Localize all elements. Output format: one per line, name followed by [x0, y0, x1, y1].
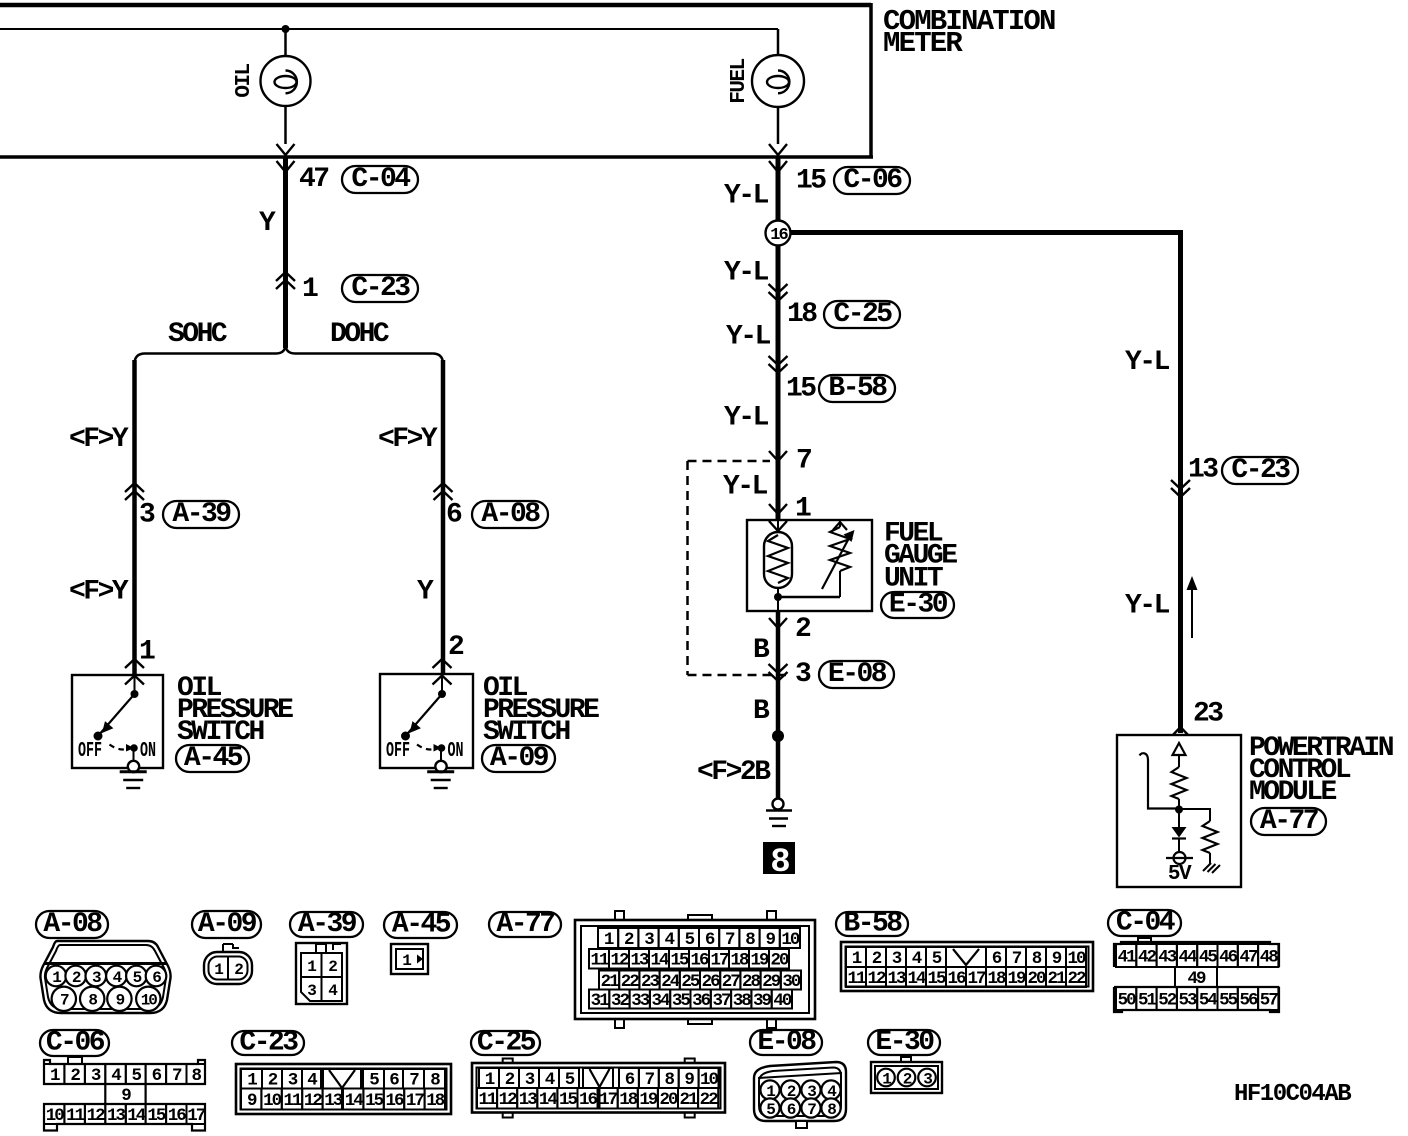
svg-text:44: 44	[1179, 947, 1198, 967]
svg-text:1: 1	[604, 930, 614, 950]
svg-text:E-30: E-30	[889, 590, 948, 621]
svg-text:5: 5	[565, 1070, 575, 1090]
svg-text:15: 15	[559, 1090, 578, 1110]
svg-text:HF10C04AB: HF10C04AB	[1234, 1081, 1351, 1108]
svg-text:7: 7	[725, 930, 735, 950]
svg-text:38: 38	[733, 991, 752, 1011]
svg-text:6: 6	[152, 1066, 162, 1086]
svg-text:3: 3	[644, 930, 654, 950]
svg-text:21: 21	[680, 1090, 699, 1110]
svg-text:3: 3	[892, 949, 902, 969]
svg-text:A-77: A-77	[1260, 806, 1318, 837]
svg-text:<F>2B: <F>2B	[697, 757, 771, 788]
svg-text:8: 8	[1032, 949, 1042, 969]
svg-text:2: 2	[624, 930, 634, 950]
svg-text:Y-L: Y-L	[726, 322, 771, 353]
svg-text:14: 14	[345, 1091, 364, 1111]
svg-text:3: 3	[139, 500, 155, 531]
svg-text:<F>Y: <F>Y	[69, 424, 129, 455]
svg-text:13: 13	[1188, 455, 1218, 486]
svg-text:A-77: A-77	[496, 909, 554, 940]
svg-text:7: 7	[796, 446, 811, 477]
svg-text:12: 12	[87, 1106, 106, 1126]
svg-text:5: 5	[685, 930, 695, 950]
svg-text:7: 7	[172, 1066, 182, 1086]
svg-text:<F>Y: <F>Y	[378, 424, 438, 455]
svg-text:4: 4	[545, 1070, 555, 1090]
svg-text:17: 17	[710, 951, 729, 971]
svg-text:C-25: C-25	[477, 1028, 536, 1059]
svg-text:23: 23	[1193, 699, 1223, 730]
svg-text:17: 17	[187, 1106, 206, 1126]
svg-text:4: 4	[111, 1066, 121, 1086]
svg-text:46: 46	[1219, 947, 1238, 967]
svg-text:18: 18	[787, 299, 817, 330]
svg-text:1: 1	[50, 1066, 60, 1086]
svg-text:55: 55	[1219, 990, 1238, 1010]
svg-text:<F>Y: <F>Y	[69, 577, 129, 608]
svg-text:A-08: A-08	[43, 909, 102, 940]
svg-text:9: 9	[247, 1091, 257, 1111]
svg-text:8: 8	[664, 1070, 674, 1090]
svg-text:14: 14	[907, 969, 926, 989]
svg-text:31: 31	[591, 991, 610, 1011]
svg-text:12: 12	[610, 951, 629, 971]
svg-text:B-58: B-58	[828, 373, 887, 404]
svg-text:11: 11	[66, 1106, 85, 1126]
svg-text:16: 16	[168, 1106, 187, 1126]
svg-text:20: 20	[770, 951, 789, 971]
svg-text:C-23: C-23	[351, 273, 410, 304]
svg-text:11: 11	[847, 969, 866, 989]
svg-text:A-39: A-39	[298, 909, 357, 940]
svg-text:54: 54	[1199, 990, 1218, 1010]
svg-text:Y-L: Y-L	[1125, 591, 1170, 622]
svg-text:13: 13	[519, 1090, 538, 1110]
svg-text:E-08: E-08	[828, 659, 887, 690]
svg-text:34: 34	[652, 991, 671, 1011]
svg-text:3: 3	[525, 1070, 535, 1090]
svg-text:B-58: B-58	[843, 909, 902, 940]
svg-text:33: 33	[631, 991, 650, 1011]
svg-text:4: 4	[912, 949, 922, 969]
svg-text:45: 45	[1199, 947, 1218, 967]
svg-text:4: 4	[664, 930, 674, 950]
svg-text:10: 10	[781, 930, 800, 950]
svg-text:16: 16	[947, 969, 966, 989]
svg-text:15: 15	[786, 374, 816, 405]
svg-text:METER: METER	[883, 27, 963, 60]
svg-text:5: 5	[932, 949, 942, 969]
svg-text:16: 16	[385, 1091, 404, 1111]
svg-text:20: 20	[1027, 969, 1046, 989]
svg-text:8: 8	[770, 844, 789, 882]
svg-text:37: 37	[712, 991, 731, 1011]
svg-text:1: 1	[302, 274, 318, 305]
svg-text:47: 47	[1239, 947, 1258, 967]
svg-text:2: 2	[505, 1070, 515, 1090]
svg-text:14: 14	[650, 951, 669, 971]
svg-text:A-39: A-39	[172, 499, 231, 530]
svg-text:10: 10	[700, 1070, 719, 1090]
svg-text:A-08: A-08	[481, 499, 540, 530]
svg-text:11: 11	[283, 1091, 302, 1111]
svg-text:21: 21	[1047, 969, 1066, 989]
svg-text:18: 18	[987, 969, 1006, 989]
svg-text:22: 22	[700, 1090, 719, 1110]
svg-text:13: 13	[630, 951, 649, 971]
svg-text:14: 14	[539, 1090, 558, 1110]
svg-text:10: 10	[1067, 949, 1086, 969]
svg-text:C-04: C-04	[351, 164, 410, 195]
svg-text:22: 22	[1067, 969, 1086, 989]
svg-text:18: 18	[730, 951, 749, 971]
svg-text:5: 5	[131, 1066, 141, 1086]
svg-text:A-45: A-45	[392, 910, 451, 941]
svg-text:57: 57	[1260, 990, 1279, 1010]
svg-text:12: 12	[304, 1091, 323, 1111]
svg-text:9: 9	[684, 1070, 694, 1090]
svg-text:OFF: OFF	[78, 740, 102, 763]
svg-text:43: 43	[1158, 947, 1177, 967]
svg-text:11: 11	[590, 951, 609, 971]
svg-text:C-23: C-23	[1231, 455, 1290, 486]
svg-text:6: 6	[446, 500, 462, 531]
svg-text:15: 15	[147, 1106, 166, 1126]
svg-text:47: 47	[299, 164, 328, 195]
svg-text:Y-L: Y-L	[723, 472, 768, 503]
svg-text:6: 6	[992, 949, 1002, 969]
svg-text:1: 1	[485, 1070, 495, 1090]
svg-text:56: 56	[1239, 990, 1258, 1010]
svg-text:C-06: C-06	[46, 1028, 105, 1059]
svg-text:A-09: A-09	[198, 909, 257, 940]
svg-text:2: 2	[795, 614, 811, 645]
svg-text:A-45: A-45	[184, 743, 243, 774]
svg-text:41: 41	[1118, 947, 1137, 967]
svg-text:9: 9	[121, 1086, 131, 1106]
svg-text:14: 14	[127, 1106, 146, 1126]
svg-text:20: 20	[659, 1090, 678, 1110]
svg-text:18: 18	[426, 1091, 445, 1111]
svg-text:12: 12	[499, 1090, 518, 1110]
svg-text:OFF: OFF	[386, 740, 410, 763]
svg-text:2: 2	[448, 632, 464, 663]
svg-text:SOHC: SOHC	[168, 319, 228, 350]
svg-text:17: 17	[599, 1090, 618, 1110]
svg-text:C-25: C-25	[833, 299, 892, 330]
svg-text:3: 3	[91, 1066, 101, 1086]
svg-text:DOHC: DOHC	[330, 319, 390, 350]
svg-text:15: 15	[927, 969, 946, 989]
svg-text:15: 15	[365, 1091, 384, 1111]
svg-text:2: 2	[872, 949, 882, 969]
svg-text:15: 15	[796, 166, 826, 197]
svg-text:8: 8	[745, 930, 755, 950]
svg-text:ON: ON	[140, 740, 156, 763]
svg-text:Y-L: Y-L	[724, 181, 769, 212]
svg-text:18: 18	[619, 1090, 638, 1110]
svg-text:3: 3	[795, 659, 811, 690]
svg-text:10: 10	[141, 992, 158, 1010]
svg-text:13: 13	[887, 969, 906, 989]
svg-text:17: 17	[406, 1091, 425, 1111]
svg-text:49: 49	[1187, 969, 1206, 989]
svg-text:16: 16	[579, 1090, 598, 1110]
svg-text:A-09: A-09	[490, 743, 549, 774]
svg-text:17: 17	[967, 969, 986, 989]
svg-text:11: 11	[479, 1090, 498, 1110]
svg-text:19: 19	[639, 1090, 658, 1110]
svg-text:32: 32	[611, 991, 630, 1011]
svg-text:FUEL: FUEL	[728, 58, 751, 103]
svg-text:9: 9	[765, 930, 775, 950]
svg-text:13: 13	[107, 1106, 126, 1126]
svg-text:MODULE: MODULE	[1249, 777, 1337, 808]
svg-text:15: 15	[670, 951, 689, 971]
svg-text:Y-L: Y-L	[724, 258, 769, 289]
svg-text:1: 1	[139, 637, 155, 668]
svg-text:9: 9	[1052, 949, 1062, 969]
svg-text:19: 19	[1007, 969, 1026, 989]
svg-text:7: 7	[1012, 949, 1022, 969]
svg-text:40: 40	[773, 991, 792, 1011]
svg-text:ON: ON	[448, 740, 464, 763]
svg-text:12: 12	[867, 969, 886, 989]
svg-text:50: 50	[1118, 990, 1137, 1010]
svg-text:48: 48	[1260, 947, 1279, 967]
svg-text:C-04: C-04	[1116, 908, 1175, 939]
svg-text:C-06: C-06	[843, 165, 902, 196]
svg-text:7: 7	[645, 1070, 655, 1090]
svg-text:10: 10	[46, 1106, 65, 1126]
svg-text:OIL: OIL	[233, 63, 256, 97]
svg-text:2: 2	[70, 1066, 80, 1086]
svg-text:53: 53	[1179, 990, 1198, 1010]
svg-text:5V: 5V	[1168, 863, 1192, 886]
svg-text:8: 8	[191, 1066, 201, 1086]
svg-text:36: 36	[692, 991, 711, 1011]
svg-text:Y-L: Y-L	[724, 403, 769, 434]
svg-text:E-30: E-30	[875, 1027, 934, 1058]
svg-text:51: 51	[1138, 990, 1157, 1010]
svg-text:1: 1	[852, 949, 862, 969]
svg-text:35: 35	[672, 991, 691, 1011]
svg-text:13: 13	[324, 1091, 343, 1111]
svg-text:6: 6	[625, 1070, 635, 1090]
svg-text:16: 16	[690, 951, 709, 971]
svg-text:16: 16	[770, 226, 788, 245]
svg-text:E-08: E-08	[757, 1027, 816, 1058]
svg-text:C-23: C-23	[239, 1028, 298, 1059]
svg-text:Y-L: Y-L	[1125, 347, 1170, 378]
svg-text:6: 6	[705, 930, 715, 950]
svg-text:52: 52	[1158, 990, 1177, 1010]
svg-text:42: 42	[1138, 947, 1157, 967]
svg-text:39: 39	[753, 991, 772, 1011]
svg-text:10: 10	[263, 1091, 282, 1111]
svg-text:19: 19	[750, 951, 769, 971]
